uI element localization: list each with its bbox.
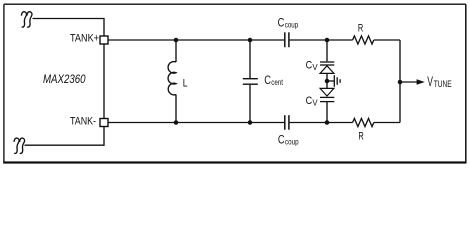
junction node: varactor midpoint: [325, 79, 330, 84]
capacitor Ccoup top plates: [285, 32, 289, 47]
right rail vertical: [399, 40, 401, 123]
svg-text:TANK-: TANK-: [70, 115, 96, 127]
junction node: inductor top: [174, 38, 179, 43]
capacitor Ccent plates: [243, 79, 258, 85]
pin terminal TANK-: [100, 119, 108, 127]
wire from top squiggle to TANK+: [33, 19, 105, 36]
varactor diode bottom triangle: [320, 88, 334, 96]
VTUNE tap wire: [400, 81, 417, 83]
inductor L coil: [168, 62, 176, 95]
varactor CV bottom plates: [320, 97, 334, 101]
label Ccoup bottom: [278, 133, 299, 146]
junction node: Ccent bottom: [248, 120, 253, 125]
varactor CV top plates: [320, 62, 334, 65]
wire TANK+ to TANK- (pin stub): [103, 44, 105, 118]
svg-text:C: C: [278, 16, 285, 29]
wire TANK+ to Ccoup top: [108, 39, 284, 41]
label Ccent: [264, 74, 283, 87]
junction node: varactor bottom: [325, 120, 330, 125]
label CV top: [306, 59, 319, 72]
svg-text:R: R: [358, 131, 363, 143]
junction node: inductor bottom: [174, 120, 179, 125]
wire triangle top to middle node: [326, 73, 328, 88]
svg-text:C: C: [278, 133, 285, 146]
wire Ccoup top to R top: [290, 39, 353, 41]
svg-text:C: C: [306, 59, 313, 71]
junction node: Ccent top: [248, 38, 253, 43]
inductor L branch wires: [175, 40, 177, 62]
wire TANK- to Ccoup bottom: [108, 122, 284, 124]
resistor R top zigzag: [353, 36, 374, 44]
break squiggle bottom-left: [14, 138, 25, 153]
frame border: [3, 4, 466, 162]
pin terminal TANK+: [100, 36, 108, 44]
wire R top to right rail: [374, 39, 400, 41]
wire Ccoup bottom to R bottom: [290, 122, 353, 124]
svg-text:V: V: [312, 99, 318, 108]
wire R bottom to right rail: [374, 122, 400, 124]
svg-text:TUNE: TUNE: [434, 79, 452, 90]
varactor branch wire top: [326, 40, 328, 61]
svg-text:V: V: [312, 63, 318, 72]
break squiggle top-left: [22, 12, 33, 27]
wire TANK- down to bottom squiggle: [25, 127, 105, 146]
VTUNE arrowhead: [417, 79, 425, 85]
capacitor Ccoup bottom plates: [285, 115, 289, 130]
svg-text:V: V: [427, 74, 433, 89]
ground (rotated) at varactor midpoint: [327, 75, 340, 87]
label CV bottom: [306, 95, 319, 108]
label Ccoup top: [278, 16, 299, 29]
svg-text:coup: coup: [285, 138, 299, 147]
svg-text:R: R: [358, 23, 363, 35]
svg-text:MAX2360: MAX2360: [43, 72, 86, 86]
label VTUNE: [427, 74, 451, 90]
svg-text:TANK+: TANK+: [70, 32, 99, 44]
junction node: varactor top: [325, 38, 330, 43]
resistor R bottom zigzag: [353, 118, 374, 126]
svg-text:C: C: [306, 95, 313, 107]
capacitor Ccent branch wires: [249, 40, 251, 78]
varactor branch wire bottom: [326, 102, 328, 123]
svg-text:cent: cent: [271, 78, 283, 87]
varactor diode top triangle: [320, 66, 334, 74]
junction node: VTUNE tap: [398, 80, 403, 85]
svg-text:C: C: [264, 74, 271, 87]
svg-text:L: L: [183, 77, 188, 89]
svg-text:coup: coup: [285, 21, 299, 30]
